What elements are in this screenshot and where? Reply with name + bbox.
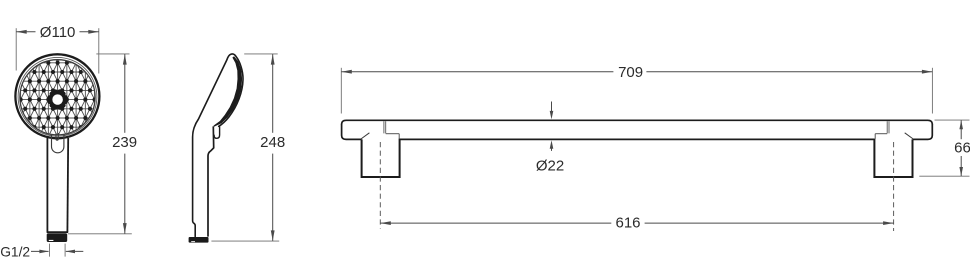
svg-text:248: 248 [260, 134, 285, 151]
G1/2 connector cap front [47, 234, 67, 242]
grab bar left end cap [342, 124, 362, 140]
dim 709 extension line right [931, 68, 933, 114]
side view spray face edge (dark sliver) [214, 56, 243, 127]
head outer circle [15, 54, 99, 138]
center hub nozzle ring [51, 93, 64, 106]
dim Ø110 dimension line [16, 31, 35, 33]
left post centerline [379, 142, 381, 229]
dim 248 top extension line [244, 53, 278, 55]
dim 66 dimension line [960, 120, 962, 139]
dim 709 dimension line [341, 71, 613, 73]
side view outline [193, 54, 243, 237]
svg-text:66: 66 [954, 139, 970, 156]
dim 248 dimension line [272, 54, 274, 133]
svg-text:G1/2: G1/2 [0, 245, 30, 260]
side view cap [189, 237, 209, 243]
dim 248 bottom extension line [211, 240, 279, 242]
dim Ø22 bottom arrow [551, 148, 553, 151]
G1/2 leader arrows [31, 250, 49, 252]
left post body [362, 139, 400, 177]
right post centerline [893, 142, 895, 231]
dim 66 bottom extension line [919, 175, 969, 177]
dim Ø110 extension line right [98, 28, 100, 73]
dim 239 top extension line [96, 53, 129, 55]
grab bar top edge [342, 120, 933, 124]
face plate circle [20, 60, 95, 135]
G1/2 extension ticks [49, 244, 51, 257]
side view hook [214, 127, 220, 139]
dim Ø22 top arrow [551, 102, 553, 113]
left post flare diagonal [361, 133, 370, 139]
right post body [874, 139, 912, 177]
svg-text:616: 616 [615, 215, 640, 232]
grab bar right end cap [913, 124, 933, 140]
dim Ø110 extension line left [15, 28, 17, 70]
side view hook inner edge [208, 126, 214, 236]
dim 239 dimension line [124, 54, 126, 133]
dim 239 bottom extension line [68, 233, 132, 235]
dim 616 dimension line [380, 222, 611, 224]
svg-text:Ø22: Ø22 [536, 157, 564, 174]
handle front view [46, 136, 48, 232]
right post collar double line [886, 121, 888, 133]
svg-text:709: 709 [618, 64, 643, 81]
left post collar step [386, 133, 400, 135]
handle U slot [52, 135, 64, 153]
svg-text:239: 239 [112, 134, 137, 151]
right post collar step [875, 133, 887, 135]
right post flare diagonal [905, 133, 914, 139]
grab bar bottom edge between posts [400, 138, 875, 140]
dim 66 top extension line [935, 119, 970, 121]
handle stem slot [56, 133, 58, 140]
dim 709 extension line left [340, 68, 342, 114]
left post collar double line [383, 121, 385, 133]
svg-text:Ø110: Ø110 [40, 24, 76, 41]
intermediate rim circle [18, 57, 97, 136]
